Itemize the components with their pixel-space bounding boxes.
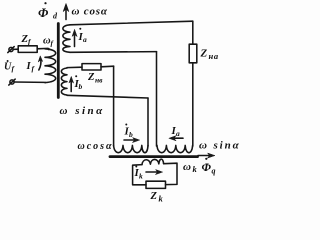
wire Zf to coil wf	[37, 48, 49, 49]
svg-text:k: k	[139, 172, 143, 181]
coil wf (primary winding, 4 loops bulging right)	[45, 49, 56, 83]
coil Ia (secondary winding a, 4 loops bulging left)	[63, 25, 70, 53]
svg-text:f: f	[12, 64, 16, 73]
arrow Ia bottom (left)	[169, 136, 183, 141]
svg-text:ωcosα: ωcosα	[78, 141, 114, 152]
svg-text:Z: Z	[150, 191, 158, 202]
svg-text:Φ: Φ	[202, 160, 212, 174]
wire coil Ia bottom horizontal	[70, 51, 157, 54]
label If	[26, 61, 36, 73]
core q-axis (horizontal)	[110, 155, 198, 158]
svg-text:Φ: Φ	[38, 5, 49, 20]
wire Ik loop left side	[133, 165, 146, 185]
svg-text:q: q	[212, 167, 216, 176]
wire lower terminal to coil wf	[14, 81, 45, 84]
svg-text:нв: нв	[95, 76, 103, 85]
arrow Phi_q (right)	[198, 153, 215, 158]
svg-text:на: на	[209, 51, 219, 61]
label flux Phi_d	[38, 2, 58, 20]
wire drop to Ib-bottom right end	[147, 98, 149, 146]
resistor Zk	[146, 181, 166, 188]
resistor Znb	[82, 64, 101, 70]
wire Ib top to Znb	[67, 66, 82, 68]
coil Ia bottom (horizontal, 4 loops bulging down)	[157, 145, 193, 152]
svg-text:b: b	[79, 82, 83, 91]
core d-axis (vertical)	[57, 24, 60, 98]
arrow Ib bottom (right)	[124, 138, 140, 143]
resistor Zna	[189, 44, 197, 63]
label wf	[43, 35, 55, 47]
label Ib (bottom)	[124, 124, 134, 140]
arrow If (curved up)	[38, 56, 42, 70]
arrow Ik (right)	[146, 170, 163, 175]
wire Ib coil bottom horizontal (crosses drop)	[67, 95, 148, 98]
svg-text:f: f	[32, 64, 36, 73]
coil Ik (3 loops bulging up)	[142, 159, 164, 164]
arrow Ia (up)	[72, 30, 77, 47]
svg-text:ω: ω	[183, 161, 191, 173]
wire Znb to drop	[101, 65, 114, 68]
svg-text:Z: Z	[87, 72, 95, 83]
svg-text:f: f	[28, 37, 32, 46]
wire Zna to coil Ia-bottom right end	[192, 63, 194, 146]
terminal lower	[9, 79, 15, 85]
svg-text:a: a	[176, 129, 180, 138]
label Uf	[4, 60, 16, 73]
svg-text:a: a	[83, 35, 87, 44]
label Phi_q	[202, 158, 216, 176]
label Ik	[134, 166, 144, 181]
svg-text:Z: Z	[200, 48, 208, 60]
svg-text:k: k	[193, 164, 198, 174]
wire terminal to Zf	[13, 48, 18, 50]
svg-text:ω sinα: ω sinα	[199, 139, 241, 151]
wire drop to Ia-bottom left end	[156, 52, 158, 146]
label Zf	[21, 34, 33, 46]
wire drop to Ib-bottom left end	[113, 66, 115, 146]
terminal upper	[8, 47, 14, 53]
label Zk	[150, 191, 164, 204]
label Zna	[200, 48, 219, 62]
svg-text:ω cosα: ω cosα	[72, 6, 108, 18]
svg-text:ω sinα: ω sinα	[60, 105, 105, 117]
coil Ib (secondary winding b, 4 loops bulging left)	[61, 68, 67, 95]
label Ia	[78, 28, 88, 44]
label Znb	[87, 72, 103, 84]
svg-text:d: d	[53, 12, 58, 21]
svg-text:k: k	[159, 194, 164, 204]
wire Ik loop right side	[164, 163, 177, 184]
coil Ib bottom (horizontal, 4 loops bulging down)	[114, 145, 148, 152]
resistor Zf	[18, 46, 37, 53]
label Ib (vertical coil)	[74, 75, 83, 91]
arrow Ib (up)	[69, 77, 74, 92]
wire top: coil Ia to Zna	[70, 21, 193, 25]
label wk	[183, 161, 198, 174]
wire Zna drop	[192, 21, 194, 44]
svg-text:f: f	[51, 38, 55, 47]
label Ia (bottom)	[171, 125, 181, 138]
arrow flux d (up)	[63, 4, 69, 20]
